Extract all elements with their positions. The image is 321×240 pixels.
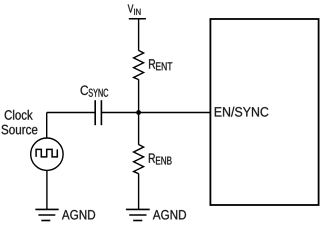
- wire C_SYNC right plate to node: [101, 112, 138, 114]
- label Clock Source: [2, 110, 38, 135]
- clock source square wave: [36, 149, 57, 157]
- wire clock source to ground: [46, 171, 48, 210]
- pin label EN/SYNC: [215, 107, 269, 117]
- wire R_ENT to node: [138, 80, 140, 113]
- label R_ENT: [149, 59, 172, 70]
- wire R_ENB to ground: [138, 174, 140, 210]
- capacitor C_SYNC label: [81, 85, 109, 96]
- label AGND (right): [153, 210, 186, 220]
- capacitor C_SYNC plates: [95, 100, 101, 125]
- wire clock corner to C_SYNC left plate: [47, 112, 95, 114]
- clock source circle: [31, 138, 63, 170]
- wire node to R_ENB: [138, 113, 140, 145]
- resistor R_ENT: [134, 50, 144, 79]
- wire node to EN/SYNC pin: [139, 112, 211, 114]
- IC box U1: [210, 19, 318, 205]
- label AGND (left): [62, 210, 95, 220]
- ground AGND (right): [126, 209, 150, 220]
- node junction dot: [136, 110, 141, 115]
- wire VIN bar to R_ENT: [138, 19, 140, 51]
- node VIN label: [128, 4, 141, 14]
- resistor R_ENB: [134, 145, 144, 174]
- VIN power rail bar: [129, 18, 146, 20]
- wire capacitor corner down to clock source: [46, 113, 48, 138]
- label R_ENB: [149, 154, 172, 165]
- ground AGND (left): [35, 209, 58, 220]
